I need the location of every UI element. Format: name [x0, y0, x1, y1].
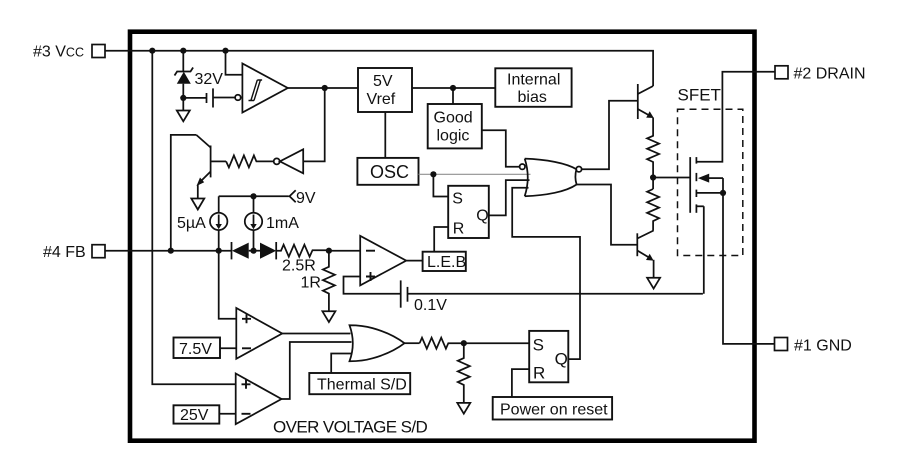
current source 5uA — [210, 196, 227, 250]
wire M1 drain — [696, 72, 775, 162]
node gate-drive — [650, 174, 656, 180]
node bias — [450, 85, 456, 91]
op-amp U5 7.5V comparator — [236, 308, 282, 359]
wire latch2 Q to NOR input — [512, 188, 580, 359]
IC boundary box — [130, 32, 755, 441]
wire OSC to NOR input — [419, 173, 531, 175]
ground below R5 — [457, 403, 470, 414]
svg-text:bias: bias — [518, 89, 547, 106]
svg-text:32V: 32V — [195, 71, 224, 88]
node S2 — [461, 340, 467, 346]
wire M1 body to GND pin — [723, 193, 775, 344]
wire to comparator minus — [329, 250, 360, 252]
block Good logic — [428, 104, 482, 148]
svg-text:25V: 25V — [180, 407, 209, 424]
svg-text:S: S — [452, 190, 463, 207]
svg-text:#4 FB: #4 FB — [43, 244, 86, 261]
wire OR output — [405, 342, 420, 344]
svg-text:#2 DRAIN: #2 DRAIN — [794, 66, 866, 83]
wire to Good logic — [452, 88, 454, 104]
ground below 1R — [322, 311, 335, 322]
pin #3 Vcc — [92, 45, 132, 58]
wire Vcc to 25V comparator — [152, 51, 235, 385]
node FB-C — [250, 248, 256, 254]
svg-text:#3 VCC: #3 VCC — [33, 44, 84, 61]
wire U5 output — [282, 333, 350, 335]
wire Thermal to OR input — [331, 354, 352, 374]
node FB-D — [326, 248, 332, 254]
9V source chevron — [290, 190, 296, 202]
svg-text:0.1V: 0.1V — [414, 297, 447, 314]
ground below Q1 — [191, 199, 204, 210]
latch U4 S-R — [448, 186, 489, 238]
wire OSC node to latch S — [433, 174, 448, 196]
wire L.E.B to latch R — [434, 227, 448, 252]
block 7.5V — [174, 338, 237, 359]
block L.E.B — [406, 252, 466, 271]
op-amp U6 25V comparator — [236, 374, 282, 425]
node FB-A — [168, 248, 174, 254]
latch U7 S-R — [529, 331, 568, 383]
wire U1 output to inverter input — [303, 88, 325, 161]
svg-text:Thermal S/D: Thermal S/D — [317, 377, 407, 394]
wire Good logic to NOR input — [482, 130, 520, 166]
svg-text:OVER VOLTAGE S/D: OVER VOLTAGE S/D — [273, 418, 427, 437]
resistor R2 — [647, 125, 659, 167]
svg-text:Vref: Vref — [367, 91, 396, 108]
svg-text:5V: 5V — [373, 73, 393, 90]
block 25V — [174, 405, 236, 424]
wire zener branch — [182, 51, 184, 72]
wire FB line — [132, 250, 232, 252]
transistor Q3 — [637, 231, 653, 278]
svg-text:L.E.B: L.E.B — [427, 254, 466, 271]
resistor R5 — [458, 343, 470, 403]
svg-text:S: S — [533, 336, 544, 355]
ground below Q3 — [647, 278, 660, 289]
current source 1mA — [245, 196, 262, 250]
pin #4 FB — [92, 245, 132, 258]
wire NOR out to NPN base — [582, 101, 638, 169]
svg-text:5µA: 5µA — [177, 215, 206, 232]
svg-text:1R: 1R — [301, 275, 321, 292]
wire divider — [652, 167, 654, 190]
ground below zener — [177, 98, 190, 121]
node M1 body — [720, 190, 726, 196]
MOSFET M1 — [690, 157, 723, 213]
wire node to MOSFET gate — [653, 177, 690, 179]
svg-text:R: R — [453, 220, 465, 237]
svg-text:Internal: Internal — [507, 72, 560, 89]
wire U1 output — [288, 87, 358, 89]
node U1-out — [322, 85, 328, 91]
svg-text:SFET: SFET — [678, 86, 721, 105]
svg-text:1mA: 1mA — [266, 215, 299, 232]
svg-text:7.5V: 7.5V — [179, 341, 212, 358]
node Vcc-B — [180, 48, 186, 54]
node Vcc-C — [222, 48, 228, 54]
wire U3 plus input — [344, 277, 401, 294]
node Vcc-A — [149, 48, 155, 54]
transistor Q1 — [171, 135, 226, 251]
svg-text:Q: Q — [476, 207, 488, 224]
gate G1 NOR — [520, 159, 582, 197]
resistor R1 — [226, 155, 274, 167]
zener diode 32V — [175, 68, 194, 98]
gate G2 OR — [350, 325, 405, 361]
wire 9V supply — [219, 195, 289, 197]
node OSC-S — [430, 171, 436, 177]
wire Vcc to U1 top input — [226, 51, 243, 75]
svg-text:9V: 9V — [296, 190, 316, 207]
inverter U2 — [274, 149, 304, 173]
svg-text:Q: Q — [555, 350, 568, 369]
block Power on reset — [493, 397, 612, 420]
wire FB to 7.5V comparator — [219, 251, 237, 319]
node 9V — [250, 193, 256, 199]
diode D1 — [232, 242, 261, 259]
block Thermal S/D — [309, 373, 410, 394]
resistor 1R — [323, 251, 335, 312]
diode D2 — [260, 242, 276, 259]
svg-text:OSC: OSC — [370, 162, 409, 182]
svg-text:2.5R: 2.5R — [282, 258, 316, 275]
capacitor C1 — [183, 88, 235, 107]
wire Vref to Internal bias — [412, 87, 495, 89]
node FB-B — [216, 248, 222, 254]
pin #1 GND — [775, 338, 788, 351]
svg-text:Power on reset: Power on reset — [500, 402, 608, 419]
wire Vref to OSC — [384, 112, 386, 158]
wire POR to latch R — [512, 369, 529, 397]
pin #2 DRAIN — [775, 66, 788, 79]
transistor Q2 — [638, 84, 654, 125]
svg-text:R: R — [533, 364, 545, 383]
battery 0.1V — [401, 280, 703, 307]
resistor 2.5R — [276, 245, 329, 257]
wire latch Q to NOR input — [489, 180, 530, 215]
node zener-anode — [180, 95, 186, 101]
wire U6 output to OR input — [282, 342, 352, 399]
op-amp U3 current comparator — [360, 236, 406, 286]
block OSC — [357, 158, 418, 185]
wire Vcc rail — [132, 51, 653, 86]
block Internal bias — [495, 68, 571, 107]
wire NOR out to PNP base — [576, 185, 637, 245]
SFET dashed box — [678, 109, 743, 255]
resistor R3 — [647, 189, 659, 231]
block 5V Vref — [358, 68, 412, 112]
op-amp U1 hysteresis comparator — [235, 64, 288, 113]
wire M1 source — [703, 206, 705, 293]
svg-text:#1 GND: #1 GND — [794, 338, 852, 355]
svg-text:logic: logic — [437, 128, 470, 145]
svg-text:Good: Good — [434, 110, 473, 127]
resistor R4 — [420, 338, 530, 349]
